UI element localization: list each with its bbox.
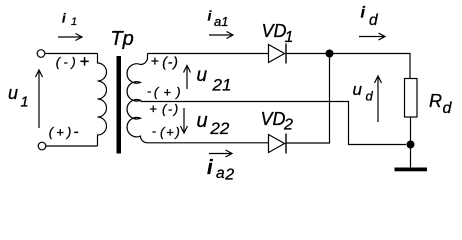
svg-text:i: i bbox=[62, 10, 66, 25]
label id bbox=[361, 5, 380, 29]
current arrow i1 bbox=[58, 34, 82, 41]
wire node A to Rd top bbox=[333, 54, 410, 79]
svg-text:a: a bbox=[216, 165, 225, 182]
svg-text:+: + bbox=[151, 53, 159, 69]
primary winding W1 bbox=[98, 54, 107, 147]
label ia1 bbox=[208, 8, 229, 29]
wire secondary top to VD1 anode bbox=[148, 53, 269, 55]
svg-text:2: 2 bbox=[224, 167, 234, 184]
svg-text:(-): (-) bbox=[162, 102, 180, 117]
wire secondary bottom to VD2 anode bbox=[147, 142, 268, 144]
svg-text:i: i bbox=[361, 5, 366, 22]
svg-text:(+): (+) bbox=[160, 125, 182, 140]
svg-text:(-): (-) bbox=[162, 53, 178, 69]
svg-text:i: i bbox=[208, 8, 213, 24]
svg-text:d: d bbox=[369, 12, 379, 29]
svg-text:Tp: Tp bbox=[110, 28, 133, 50]
svg-text:VD: VD bbox=[261, 109, 286, 129]
svg-text:d: d bbox=[366, 88, 374, 103]
svg-text:-: - bbox=[152, 124, 157, 139]
node B junction dot bbox=[407, 141, 415, 149]
svg-text:(+): (+) bbox=[154, 85, 186, 100]
svg-text:u: u bbox=[353, 80, 363, 99]
svg-text:u: u bbox=[8, 83, 18, 103]
wire Rd bottom to node B bbox=[410, 117, 412, 145]
svg-text:-: - bbox=[74, 123, 79, 140]
secondary winding u21 u22 bbox=[127, 54, 147, 143]
label i1 bbox=[62, 10, 77, 28]
wire node B to ground bbox=[410, 145, 412, 168]
resistor Rd bbox=[405, 79, 418, 118]
voltage arrow u22 bbox=[181, 108, 188, 133]
label u22 bbox=[197, 110, 230, 138]
svg-text:22: 22 bbox=[209, 119, 229, 138]
label VD1 bbox=[262, 21, 294, 46]
svg-text:-: - bbox=[147, 84, 152, 99]
svg-text:i: i bbox=[207, 157, 213, 179]
svg-text:21: 21 bbox=[212, 76, 232, 95]
current arrow ia2 bbox=[209, 150, 232, 157]
polarity label primary top bbox=[56, 53, 90, 71]
wire primary top bbox=[45, 53, 98, 55]
svg-text:u: u bbox=[197, 65, 208, 86]
polarity label u22 bottom bbox=[152, 124, 182, 140]
wire VD1 cathode to node A bbox=[286, 53, 326, 55]
wire primary bottom bbox=[46, 145, 98, 147]
svg-text:+: + bbox=[149, 101, 157, 116]
svg-text:a1: a1 bbox=[214, 14, 228, 29]
current arrow ia1 bbox=[209, 32, 233, 39]
svg-text:VD: VD bbox=[262, 21, 287, 41]
polarity label u22 top bbox=[149, 101, 179, 116]
voltage arrow u1 bbox=[36, 70, 43, 128]
svg-text:R: R bbox=[429, 91, 442, 111]
polarity label primary bottom bbox=[49, 123, 79, 140]
svg-text:(-): (-) bbox=[56, 54, 79, 69]
svg-text:+: + bbox=[80, 53, 90, 71]
voltage arrow ud bbox=[375, 76, 382, 122]
label Rd bbox=[429, 91, 453, 117]
voltage arrow u21 bbox=[184, 66, 191, 90]
svg-text:2: 2 bbox=[283, 117, 293, 134]
current arrow id bbox=[359, 33, 385, 40]
node A junction dot bbox=[326, 50, 334, 58]
terminal T2 primary bottom bbox=[38, 142, 46, 150]
diode VD1 bbox=[269, 44, 287, 64]
svg-text:1: 1 bbox=[71, 16, 77, 28]
wire center tap to node B bbox=[141, 102, 407, 145]
polarity label u21 top bbox=[151, 53, 179, 70]
label u1 bbox=[8, 83, 29, 110]
svg-text:1: 1 bbox=[285, 29, 294, 46]
transformer core bbox=[117, 56, 122, 154]
label VD2 bbox=[261, 109, 294, 134]
wire VD2 cathode to node A bbox=[286, 58, 330, 144]
label u21 bbox=[197, 65, 232, 95]
terminal T1 primary top bbox=[37, 50, 45, 58]
svg-text:(+): (+) bbox=[49, 124, 75, 139]
label ia2 bbox=[207, 157, 234, 184]
ground bbox=[395, 168, 428, 172]
label ud bbox=[353, 80, 374, 103]
polarity label u21 bottom bbox=[147, 84, 186, 100]
svg-text:u: u bbox=[197, 110, 208, 132]
diode VD2 bbox=[269, 134, 287, 154]
svg-text:1: 1 bbox=[20, 93, 28, 110]
svg-text:d: d bbox=[443, 100, 453, 117]
